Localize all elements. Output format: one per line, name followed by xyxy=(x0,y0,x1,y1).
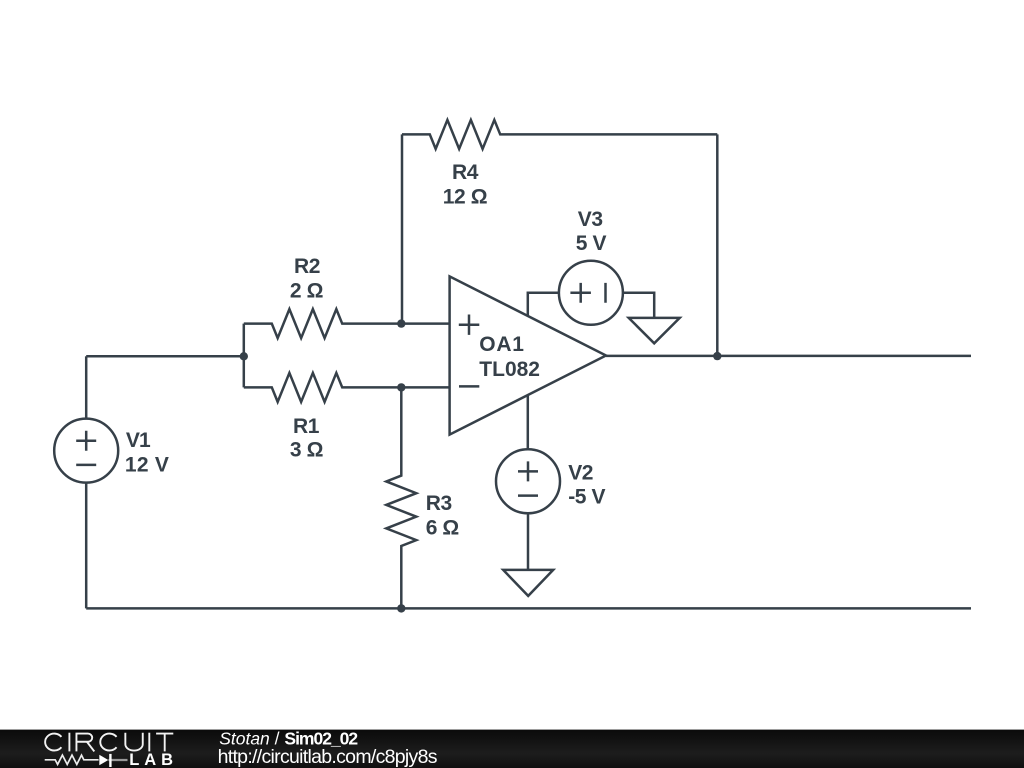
voltage source V2 xyxy=(496,449,560,513)
wire op-amp V+ pin xyxy=(528,293,559,316)
node junction R3-bottom rail xyxy=(397,604,405,612)
svg-text:R2: R2 xyxy=(294,255,320,278)
label R3 value xyxy=(426,492,459,540)
svg-text:12 V: 12 V xyxy=(125,454,169,477)
svg-text:R1: R1 xyxy=(293,415,320,438)
wire V1 bottom vertical xyxy=(85,483,88,609)
ground V2 xyxy=(503,570,553,596)
wire V1 top vertical xyxy=(85,356,88,418)
svg-text:3 Ω: 3 Ω xyxy=(290,438,323,461)
svg-text:V3: V3 xyxy=(578,208,603,231)
svg-text:6 Ω: 6 Ω xyxy=(426,517,459,540)
wire V1 horizontal xyxy=(86,355,244,358)
svg-text:2 Ω: 2 Ω xyxy=(290,280,323,303)
label R2 value xyxy=(290,255,323,303)
wire V2 to ground xyxy=(527,513,530,570)
label V2 value xyxy=(568,461,605,508)
ground V3 xyxy=(629,318,680,343)
resistor R4 xyxy=(402,120,717,149)
label R4 value xyxy=(443,161,487,209)
svg-text:TL082: TL082 xyxy=(479,358,540,381)
wire bottom rail xyxy=(86,607,971,610)
node junction R2-R4 xyxy=(397,319,405,327)
wire input branch vertical xyxy=(243,324,246,388)
svg-text:-5 V: -5 V xyxy=(568,485,605,508)
label V3 value xyxy=(576,208,607,255)
voltage source V1 xyxy=(54,419,118,483)
label OA1 TL082 xyxy=(479,333,540,381)
footer bar xyxy=(0,730,1024,768)
wire feedback right vertical to output xyxy=(716,134,719,356)
logo CIRCUIT wordmark xyxy=(45,733,173,752)
svg-text:V1: V1 xyxy=(126,429,151,452)
node junction R1-R3 xyxy=(397,383,405,391)
svg-text:http://circuitlab.com/c8pjy8s: http://circuitlab.com/c8pjy8s xyxy=(218,746,438,768)
wire op-amp V- pin xyxy=(527,395,530,450)
wire feedback left vertical (node A to R4) xyxy=(401,134,404,323)
svg-text:LAB: LAB xyxy=(129,751,178,768)
resistor R1 xyxy=(244,373,450,402)
svg-text:R3: R3 xyxy=(426,492,452,515)
wire V3 to ground xyxy=(623,293,654,318)
op-amp OA1 xyxy=(450,276,606,434)
label V1 value xyxy=(125,429,169,477)
resistor R2 xyxy=(244,309,450,338)
label R1 value xyxy=(290,415,323,462)
wire output rail xyxy=(606,355,971,358)
logo resistor-diode wire xyxy=(45,754,128,767)
resistor R3 xyxy=(386,387,416,608)
svg-text:V2: V2 xyxy=(568,461,593,484)
svg-text:OA1: OA1 xyxy=(479,333,524,356)
node junction V1-R1R2 xyxy=(240,352,248,360)
svg-text:12 Ω: 12 Ω xyxy=(443,186,487,209)
node junction output-feedback xyxy=(713,352,721,360)
svg-text:5 V: 5 V xyxy=(576,232,607,255)
voltage source V3 xyxy=(559,261,623,325)
svg-text:R4: R4 xyxy=(452,161,479,184)
